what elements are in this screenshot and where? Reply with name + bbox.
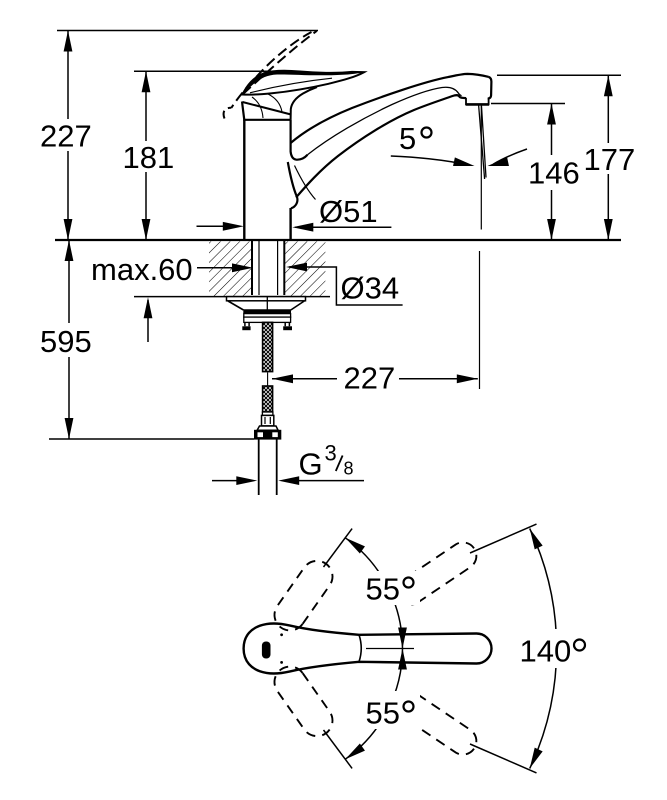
- dia51 right leader/underline: [295, 226, 391, 228]
- dia34 leader: [289, 267, 403, 305]
- 5 degree left curve: [391, 156, 468, 165]
- braided hose segment 1: [263, 322, 273, 371]
- svg-text:177: 177: [584, 142, 636, 177]
- counter bottom edge line: [134, 296, 330, 298]
- dimension line 227 vertical: [67, 31, 69, 241]
- right bolt: [285, 322, 289, 326]
- nut bevel: [257, 426, 278, 430]
- 140 degree arc: [530, 529, 557, 769]
- dashed spout capsule upper: [397, 542, 476, 604]
- dimension line 181 vertical: [145, 71, 147, 240]
- left bolt: [245, 322, 249, 326]
- cap inner arcs: [252, 97, 263, 118]
- spout inner shading line: [295, 166, 316, 200]
- braided hose segment 2: [263, 386, 273, 412]
- handle slot black bar: [262, 642, 271, 659]
- aerator block: [466, 98, 489, 104]
- ref line 595 bottom: [49, 438, 254, 440]
- cap diagonal: [243, 102, 292, 115]
- aerator bottom thick line: [466, 103, 490, 105]
- svg-text:227: 227: [40, 119, 92, 154]
- 55 degree arc lower: [345, 649, 402, 760]
- dashed raised lever lower curve: [243, 31, 317, 94]
- handle/spout top-view outline: [244, 624, 492, 674]
- dimension line 227 horizontal below counter: [272, 378, 478, 380]
- svg-text:3: 3: [325, 441, 337, 466]
- lever blade outline: [243, 71, 365, 95]
- hose end fitting: [262, 412, 273, 415]
- two small dots: [280, 633, 283, 636]
- lever blade inner line: [250, 78, 332, 93]
- arrows top drawing: [64, 31, 73, 52]
- counter hatch left block: [209, 241, 252, 296]
- degree circle of 5: [422, 128, 432, 138]
- line spout capsule to arc upper: [470, 524, 537, 553]
- spout outer top edge: [291, 74, 489, 143]
- 55 degree arc upper: [345, 538, 402, 649]
- G3/8 left arrow line: [212, 480, 252, 482]
- lever blade top dark band: [243, 71, 365, 95]
- svg-text:Ø51: Ø51: [319, 194, 378, 229]
- ref line 146 top: [491, 103, 565, 105]
- text masks: [38, 119, 635, 393]
- 5 degree right curve: [494, 149, 528, 164]
- G3/8 right arrow line: [283, 480, 364, 482]
- ref line 227 top: [57, 30, 318, 32]
- nut band 1: [244, 314, 291, 318]
- flange cone: [228, 301, 304, 310]
- line spout capsule to arc lower: [470, 744, 537, 773]
- nut body: [255, 430, 281, 439]
- dimension line 595 vertical: [68, 240, 70, 439]
- cap neck right curve: [291, 87, 317, 120]
- faucet body right edge upper: [291, 120, 308, 160]
- shank outer walls: [251, 241, 253, 295]
- water stream lines: [479, 105, 485, 179]
- shank inner walls: [258, 241, 260, 295]
- countertop line: [55, 239, 621, 241]
- svg-text:595: 595: [40, 324, 92, 359]
- dashed handle capsule lower: [274, 667, 332, 737]
- center pipe line through cone: [266, 297, 268, 310]
- faucet body top line: [243, 119, 290, 121]
- svg-text:8: 8: [344, 459, 354, 479]
- text masks bottom: [358, 571, 591, 729]
- hose break thin line: [267, 373, 269, 387]
- svg-text:55: 55: [366, 696, 400, 731]
- dashed spout capsule lower: [397, 692, 476, 754]
- axis line lower 55: [324, 730, 353, 768]
- svg-text:140: 140: [520, 634, 572, 669]
- spout head right edge: [488, 77, 492, 99]
- dia51 left arrow line: [197, 225, 241, 227]
- axis line upper 55: [324, 529, 353, 567]
- transition curve: [359, 635, 361, 662]
- extension line aerator axis below counter: [479, 251, 481, 389]
- aerator axis vertical line: [480, 106, 482, 230]
- svg-text:G: G: [299, 447, 323, 482]
- spout underside bulge at body: [288, 162, 298, 208]
- faucet body column left edge: [243, 120, 245, 239]
- flange rim: [227, 297, 306, 301]
- supply tube walls: [258, 439, 260, 495]
- spout underside main sweep: [296, 95, 466, 197]
- ref line 177 top: [497, 74, 621, 76]
- ref line 181 top: [134, 70, 279, 72]
- collar with slots: [262, 415, 274, 426]
- dimension line 177 vertical: [607, 75, 609, 240]
- svg-text:227: 227: [344, 361, 396, 396]
- cap left edge: [242, 102, 244, 121]
- flange dark ring: [243, 310, 291, 313]
- centerline: [366, 648, 414, 650]
- counter hatch right block: [284, 241, 325, 296]
- dimension line 146 vertical: [551, 104, 553, 241]
- max.60 lower arrow line: [147, 300, 149, 342]
- spout inner top line: [308, 87, 462, 155]
- max.60 arrow line: [197, 267, 250, 269]
- svg-text:181: 181: [123, 140, 175, 175]
- dashed raised lever upper curve: [231, 32, 311, 108]
- svg-text:5: 5: [399, 121, 416, 156]
- nut band 2: [244, 317, 291, 322]
- svg-text:max.60: max.60: [91, 252, 193, 287]
- dashed raised cap hook: [224, 108, 232, 119]
- dashed handle capsule upper: [274, 561, 332, 631]
- svg-text:Ø34: Ø34: [341, 271, 400, 306]
- svg-text:146: 146: [528, 156, 580, 191]
- svg-text:55: 55: [366, 572, 400, 607]
- arrows bottom drawing: [343, 534, 365, 553]
- faucet body right edge lower: [289, 208, 291, 239]
